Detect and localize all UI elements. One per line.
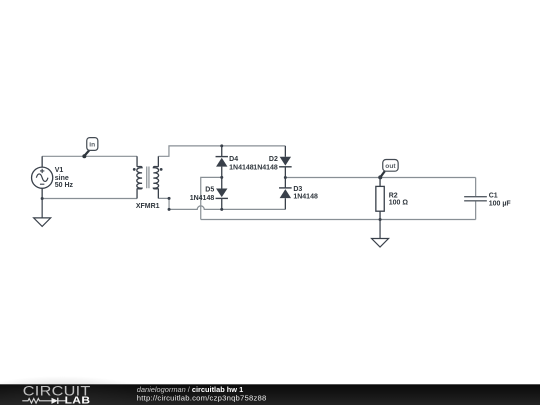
label D5	[190, 187, 215, 202]
capacitor C1	[464, 197, 487, 201]
wire out row	[285, 177, 475, 179]
wire bridge bottom rail with hop	[169, 206, 285, 210]
svg-text:LAB: LAB	[65, 395, 91, 405]
svg-text:50 Hz: 50 Hz	[55, 182, 74, 189]
diode D2	[279, 146, 292, 178]
transformer phase dot secondary	[160, 168, 163, 171]
svg-text:1N4148: 1N4148	[293, 194, 318, 201]
junction dot R2 top	[379, 176, 382, 179]
svg-text:C1: C1	[489, 193, 498, 200]
label D2	[253, 156, 278, 171]
svg-text:D2: D2	[269, 156, 278, 163]
wire primary bottom	[42, 198, 137, 200]
label R2	[389, 192, 409, 206]
voltage source V1	[32, 156, 53, 198]
svg-text:100 Ω: 100 Ω	[389, 200, 409, 207]
label D3	[293, 186, 318, 201]
svg-text:1N4148: 1N4148	[229, 164, 254, 171]
svg-text:R2: R2	[389, 192, 398, 199]
svg-text:V1: V1	[55, 167, 64, 174]
wire C1 bottom lead	[475, 201, 477, 219]
junction dot node B mid right	[284, 176, 287, 179]
wire node A to ground rail	[201, 177, 222, 219]
junction dot node A mid left	[220, 176, 223, 179]
svg-text:in: in	[89, 142, 95, 149]
wire primary top	[42, 155, 137, 157]
wire secondary bottom	[158, 198, 169, 209]
logo schematic: resistor zigzag	[22, 399, 51, 404]
ground (left)	[34, 199, 51, 227]
resistor R2	[376, 178, 384, 220]
junction dot R2 bottom	[379, 218, 382, 221]
junction dot secondary bottom corner upper	[168, 197, 171, 200]
svg-text:XFMR1: XFMR1	[136, 203, 160, 210]
junction dot D4 top rail	[220, 144, 223, 147]
label V1	[55, 167, 74, 189]
junction dot V1 bottom	[41, 197, 44, 200]
svg-text:D5: D5	[205, 187, 214, 194]
diode D5	[216, 177, 228, 209]
svg-text:D3: D3	[293, 186, 302, 193]
svg-text:http://circuitlab.com/czp3nqb7: http://circuitlab.com/czp3nqb758z88	[137, 394, 267, 403]
svg-text:D4: D4	[229, 156, 238, 163]
junction dot D5 bottom rail	[220, 208, 223, 211]
svg-text:out: out	[385, 163, 396, 170]
logo schematic: diode	[52, 398, 58, 404]
transformer phase dot primary	[133, 168, 136, 171]
wire secondary top to bridge rail	[158, 146, 285, 156]
label D4	[229, 156, 254, 171]
svg-text:1N4148: 1N4148	[253, 164, 278, 171]
wire ground rail bottom	[201, 219, 476, 221]
transformer XFMR1	[137, 156, 159, 198]
junction dot secondary bottom corner lower	[168, 208, 171, 211]
diode D3	[279, 177, 292, 209]
node flag in	[82, 138, 98, 159]
svg-text:1N4148: 1N4148	[190, 195, 215, 202]
label C1	[489, 193, 512, 208]
node flag out	[378, 160, 398, 180]
diode D4	[216, 146, 228, 178]
ground (right)	[372, 220, 389, 248]
wire C1 top lead	[475, 178, 477, 197]
transformer core	[147, 167, 149, 189]
svg-text:100 µF: 100 µF	[489, 201, 512, 208]
